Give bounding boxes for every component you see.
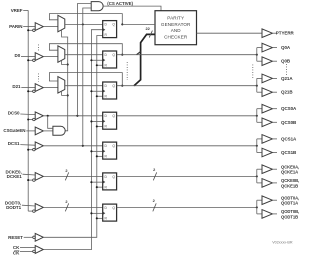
- input label PARIN: [9, 24, 22, 29]
- output buffer Q21 A: [262, 74, 277, 83]
- svg-text:Q: Q: [112, 23, 115, 27]
- output buffer QCS0 A: [262, 104, 277, 113]
- output buffer QCS1 A: [262, 135, 277, 144]
- bus width slash 22: [145, 26, 152, 38]
- output label QCS0 A: [281, 106, 297, 111]
- wire D21: [21, 87, 35, 89]
- mux M2: [58, 46, 65, 63]
- wire VREF stub: [23, 9, 28, 11]
- wire CSGateEN to AND G1: [43, 130, 53, 132]
- output label PTYERR: [276, 31, 295, 36]
- output label Q0 B: [281, 59, 291, 64]
- svg-text:QCKE1A: QCKE1A: [281, 170, 298, 175]
- svg-text:GENERATOR: GENERATOR: [161, 22, 191, 27]
- svg-text:CHECKER: CHECKER: [164, 35, 188, 40]
- receiver CK differential: [33, 246, 44, 254]
- wire DODT to FF7 D: [43, 206, 102, 208]
- wire DCS0 to G1 input: [48, 116, 53, 129]
- ellipsis inputs lower: [37, 74, 39, 82]
- output label QCS1 B: [281, 150, 297, 155]
- svg-text:DCKE1: DCKE1: [7, 174, 23, 179]
- net clock to clock bus: [43, 30, 102, 250]
- svg-text:2: 2: [65, 199, 68, 204]
- bus width slash 2 QODT: [153, 198, 157, 211]
- flip-flop FF4 (DCS0): [103, 112, 117, 129]
- svg-text:PARITY: PARITY: [167, 15, 184, 20]
- flip-flop FF1 (PARIN): [103, 21, 117, 38]
- output label QODT A: [281, 195, 299, 205]
- svg-text:V02xxxx-BR: V02xxxx-BR: [272, 240, 293, 244]
- svg-text:2: 2: [153, 167, 156, 172]
- input label VREF: [11, 8, 23, 13]
- parity generator and checker U1: [155, 11, 197, 45]
- flip-flop FF2 (D0): [103, 51, 117, 68]
- clock bus taps: [90, 59, 102, 214]
- svg-text:Q: Q: [112, 84, 115, 88]
- wire PARIN: [23, 26, 35, 28]
- svg-text:2: 2: [153, 198, 156, 203]
- svg-text:QCKE1B: QCKE1B: [281, 183, 298, 188]
- reset bus taps: [96, 64, 103, 219]
- svg-text:Q: Q: [112, 53, 115, 57]
- input label CSGateEN: [3, 128, 25, 133]
- output label QCS0 B: [281, 120, 297, 125]
- buffer RESET: [33, 233, 44, 241]
- output label QCKE B: [281, 178, 299, 188]
- net VREF vertical bus: [27, 10, 33, 211]
- ellipsis inputs upper: [37, 45, 39, 53]
- svg-text:QODT1A: QODT1A: [281, 201, 298, 206]
- receiver D21: [33, 84, 44, 93]
- wire FF1 feedback: [49, 14, 123, 26]
- svg-text:VREF: VREF: [11, 8, 23, 13]
- bus width slash 2 DCKE: [65, 168, 68, 181]
- input label DCKE0 DCKE1: [5, 170, 22, 179]
- output label Q21 B: [281, 90, 293, 95]
- svg-text:CK: CK: [13, 245, 20, 250]
- wire QCKE split: [257, 169, 262, 183]
- svg-text:CSGateEN: CSGateEN: [3, 128, 25, 133]
- input label DODT0 DODT1: [5, 201, 22, 210]
- flip-flop FF3 (D21): [103, 82, 117, 99]
- wire mux M2 select: [62, 61, 68, 65]
- wire PARIN receiver to mux: [43, 26, 58, 28]
- wire Q0 split: [257, 48, 262, 62]
- svg-text:22: 22: [145, 26, 150, 31]
- and gate G2 (CS ACTIVE): [91, 2, 103, 11]
- receiver D0: [33, 53, 44, 62]
- wire QCS1 split: [257, 139, 262, 153]
- output label Q0 A: [281, 45, 291, 50]
- wire FF3 feedback: [49, 73, 123, 87]
- wire QODT split: [257, 200, 262, 214]
- output buffer PTYERR: [262, 29, 277, 38]
- svg-text:DCS1: DCS1: [8, 141, 20, 146]
- wire mux M2 out: [65, 54, 103, 56]
- output label QODT B: [281, 209, 299, 219]
- wire DCS1: [20, 144, 35, 147]
- bus width slash 2 QCKE: [153, 167, 157, 180]
- svg-text:DCS0: DCS0: [8, 110, 20, 115]
- and gate G1 (CS gate): [53, 126, 65, 135]
- output buffer Q0 A: [262, 43, 277, 52]
- svg-text:RESET: RESET: [8, 235, 23, 240]
- wire parity out: [197, 32, 263, 34]
- svg-text:AND: AND: [171, 28, 182, 33]
- input label DCS1: [8, 141, 20, 146]
- svg-text:QCS0A: QCS0A: [281, 106, 297, 111]
- receiver DCS1: [33, 142, 44, 151]
- mux M3: [58, 77, 65, 94]
- wire QCS1 Q line: [117, 145, 258, 147]
- svg-text:Q21A: Q21A: [281, 76, 293, 81]
- wire CSGateEN: [26, 130, 35, 132]
- svg-text:Q: Q: [112, 206, 115, 210]
- svg-text:D0: D0: [15, 53, 21, 58]
- wire G2 input 1 from DCS0: [77, 4, 91, 116]
- ellipsis output column labels: [286, 64, 288, 76]
- svg-text:PARIN: PARIN: [9, 24, 22, 29]
- wire D0 receiver to mux: [43, 56, 58, 58]
- wire DCS0: [20, 113, 35, 116]
- flip-flop FF7 (DODT): [103, 204, 117, 221]
- output buffer Q0 B: [262, 57, 277, 66]
- output buffer QODT A: [262, 196, 277, 205]
- svg-text:DODT1: DODT1: [6, 205, 22, 210]
- wire G2 input 2 from DCS1: [83, 8, 91, 146]
- wire D0: [21, 56, 35, 58]
- svg-text:Q0A: Q0A: [281, 45, 291, 50]
- wire Q21 split: [257, 78, 262, 92]
- wire mux M3 out: [65, 85, 103, 87]
- svg-text:QODT1B: QODT1B: [281, 214, 298, 219]
- svg-text:Q: Q: [112, 144, 115, 148]
- net mux select bus: [62, 30, 69, 130]
- output buffer QCKE B: [262, 179, 277, 188]
- wire FF2 feedback: [49, 44, 123, 56]
- output buffer QODT B: [262, 210, 277, 219]
- flip-flop FF5 (DCS1): [103, 142, 117, 159]
- label CS ACTIVE: [107, 1, 133, 6]
- flip-flop FF6 (DCKE): [103, 173, 117, 190]
- receiver PARIN: [33, 23, 44, 32]
- input label CK-bar: [13, 250, 20, 255]
- bus width slash 2 DODT: [65, 199, 68, 212]
- input label D21: [12, 84, 21, 89]
- receiver DCS0: [33, 112, 44, 121]
- receiver DODT: [33, 204, 44, 213]
- wire CK-bar: [20, 250, 33, 252]
- input label DCS0: [8, 110, 20, 115]
- output buffer QCKE A: [262, 165, 277, 174]
- output label QCS1 A: [281, 136, 297, 141]
- output buffer QCS0 B: [262, 118, 277, 127]
- ellipsis flip-flop column: [126, 62, 128, 80]
- output buffer Q21 B: [262, 88, 277, 97]
- wire RESET: [24, 236, 33, 238]
- wire G2 out to parity box: [103, 6, 161, 11]
- wire DCS1 to FF5 D: [43, 145, 102, 147]
- mux M1: [58, 15, 65, 32]
- wire mux M3 select: [62, 92, 68, 96]
- wire FF1 Q to parity box: [122, 23, 155, 25]
- wire DCKE to FF6 D: [43, 175, 102, 177]
- net RESET to reset bus: [43, 36, 102, 238]
- wire Q21 Q line: [117, 85, 258, 87]
- output label Q21 A: [281, 76, 293, 81]
- svg-text:Q0B: Q0B: [281, 59, 291, 64]
- wire CK: [20, 246, 35, 248]
- ellipsis output column inner: [252, 65, 254, 80]
- svg-text:Q: Q: [112, 175, 115, 179]
- input label D0: [15, 53, 21, 58]
- bus tap Q0: [137, 52, 141, 55]
- svg-text:QCS1B: QCS1B: [281, 150, 297, 155]
- svg-text:QCS1A: QCS1A: [281, 136, 297, 141]
- svg-text:Q21B: Q21B: [281, 90, 293, 95]
- bus 22 to parity box: [134, 34, 155, 85]
- wire QCKE Q line: [117, 175, 258, 177]
- svg-text:QCS0B: QCS0B: [281, 120, 297, 125]
- wire QCS0 split: [257, 109, 262, 123]
- output buffer QCS1 B: [262, 148, 277, 157]
- wire DODT: [22, 204, 35, 207]
- figure code: [272, 240, 293, 244]
- input label CK: [13, 245, 20, 250]
- svg-text:(CS ACTIVE): (CS ACTIVE): [107, 1, 133, 6]
- input label RESET: [8, 235, 23, 240]
- wire Q0 Q line: [117, 54, 258, 56]
- output label QCKE A: [281, 164, 299, 174]
- svg-text:D21: D21: [12, 84, 21, 89]
- wire QODT Q line: [117, 206, 258, 208]
- wire mux M1 out: [65, 23, 103, 25]
- wire DCKE: [23, 173, 36, 176]
- svg-text:PTYERR: PTYERR: [276, 31, 295, 36]
- wire DCS0 to FF4 D: [43, 115, 102, 117]
- svg-text:2: 2: [65, 168, 68, 173]
- wire D21 receiver to mux: [43, 87, 58, 89]
- wire QCS0 Q line: [117, 115, 258, 117]
- svg-text:Q: Q: [112, 114, 115, 118]
- receiver DCKE: [33, 173, 44, 182]
- buffer CSGateEN: [35, 127, 43, 135]
